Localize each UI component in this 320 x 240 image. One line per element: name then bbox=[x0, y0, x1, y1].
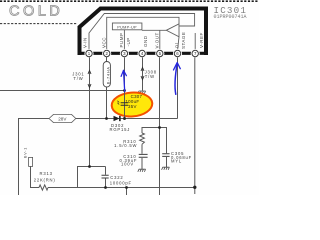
svg-text:PUMP-UP: PUMP-UP bbox=[117, 25, 137, 29]
svg-text:COLD: COLD bbox=[9, 4, 63, 20]
svg-text:-UP: -UP bbox=[126, 37, 131, 46]
svg-text:PUMP: PUMP bbox=[119, 32, 124, 47]
svg-text:T/W: T/W bbox=[145, 74, 155, 79]
svg-text:VCC: VCC bbox=[101, 37, 106, 48]
svg-text:V-IN: V-IN bbox=[83, 37, 88, 48]
svg-text:V-OUT: V-OUT bbox=[155, 32, 160, 48]
svg-text:T/W: T/W bbox=[73, 76, 83, 81]
svg-text:100V: 100V bbox=[121, 162, 134, 167]
svg-text:STAGE: STAGE bbox=[181, 32, 186, 49]
svg-text:35V: 35V bbox=[128, 104, 137, 109]
svg-text:22K(RN): 22K(RN) bbox=[34, 177, 56, 182]
svg-text:GND: GND bbox=[143, 35, 148, 47]
svg-text:O/: O/ bbox=[175, 42, 180, 48]
svg-text:10000pF: 10000pF bbox=[110, 181, 132, 186]
svg-text:1.5/0.5W: 1.5/0.5W bbox=[114, 143, 137, 148]
svg-text:R313: R313 bbox=[40, 171, 53, 176]
svg-text:01PRP00741A: 01PRP00741A bbox=[214, 14, 247, 20]
svg-text:MYL: MYL bbox=[171, 158, 182, 163]
svg-text:C322: C322 bbox=[110, 175, 123, 180]
svg-text:BV-1: BV-1 bbox=[23, 147, 27, 158]
svg-text:RGP15J: RGP15J bbox=[110, 127, 131, 132]
svg-text:B-74HA: B-74HA bbox=[105, 66, 110, 84]
svg-text:28V: 28V bbox=[58, 116, 67, 121]
svg-text:V-REF: V-REF bbox=[199, 32, 204, 48]
